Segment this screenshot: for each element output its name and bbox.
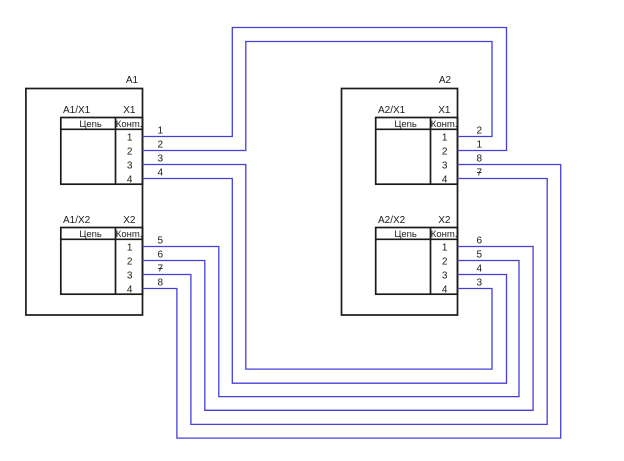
svg-text:5: 5 <box>477 250 483 261</box>
circuit label 3 at A2/X2 pin4 <box>477 278 483 289</box>
pin 4 of A2/X2 <box>442 284 448 295</box>
svg-text:2: 2 <box>127 146 133 157</box>
circuit label 8 at A2/X1 pin3 <box>477 154 483 165</box>
svg-text:6: 6 <box>158 250 164 261</box>
svg-text:3: 3 <box>477 278 483 289</box>
device block A2 <box>342 89 458 316</box>
circuit label 2 at A1/X1 pin2 <box>158 140 164 151</box>
wire circuit 8: A1/X2 pin4 to A2/X1 pin3 <box>143 165 561 439</box>
circuit label 1 at A1/X1 pin1 <box>158 126 164 137</box>
svg-text:2: 2 <box>127 256 133 267</box>
pin 2 of A2/X1 <box>442 146 448 157</box>
svg-text:A1: A1 <box>126 75 139 86</box>
connector table A2/X2 <box>376 228 458 295</box>
label X1 of A2 <box>438 105 451 116</box>
pin 3 of A2/X1 <box>442 160 448 171</box>
pin 2 of A2/X2 <box>442 256 448 267</box>
circuit label 6 at A1/X2 pin2 <box>158 250 164 261</box>
svg-text:A1/X1: A1/X1 <box>63 105 91 116</box>
header Конт. of A2/X1 <box>431 119 458 130</box>
svg-text:2: 2 <box>477 126 483 137</box>
svg-text:A1/X2: A1/X2 <box>63 215 91 226</box>
header Конт. of A1/X1 <box>116 119 143 130</box>
wire circuit 4: A1/X1 pin4 to A2/X2 pin3 <box>143 179 507 384</box>
svg-text:Цenь: Цenь <box>79 119 102 130</box>
pin 3 of A1/X1 <box>127 160 133 171</box>
svg-text:Цenь: Цenь <box>394 119 417 130</box>
svg-text:4: 4 <box>442 174 448 185</box>
circuit label 7 at A1/X2 pin3 <box>158 264 164 275</box>
svg-text:A2/X1: A2/X1 <box>378 105 406 116</box>
header Конт. of A2/X2 <box>431 229 458 240</box>
svg-text:6: 6 <box>477 236 483 247</box>
svg-text:A2: A2 <box>439 75 452 86</box>
svg-text:2: 2 <box>442 256 448 267</box>
label A2/X2 <box>378 215 406 226</box>
svg-text:A2/X2: A2/X2 <box>378 215 406 226</box>
pin 4 of A2/X1 <box>442 174 448 185</box>
svg-text:8: 8 <box>477 154 483 165</box>
circuit label 6 at A2/X2 pin1 <box>477 236 483 247</box>
label X1 of A1 <box>123 105 136 116</box>
svg-text:1: 1 <box>127 242 133 253</box>
svg-text:2: 2 <box>442 146 448 157</box>
header Цепь of A1/X2 <box>79 229 102 240</box>
connector table A1/X2 <box>61 228 143 295</box>
label A2 <box>439 75 452 86</box>
circuit label 8 at A1/X2 pin4 <box>158 278 164 289</box>
label A2/X1 <box>378 105 406 116</box>
svg-text:Цenь: Цenь <box>394 229 417 240</box>
svg-text:8: 8 <box>158 278 164 289</box>
svg-text:4: 4 <box>127 284 133 295</box>
header Конт. of A1/X2 <box>116 229 143 240</box>
svg-text:4: 4 <box>127 174 133 185</box>
pin 1 of A2/X2 <box>442 242 448 253</box>
header Цепь of A2/X1 <box>394 119 417 130</box>
svg-text:5: 5 <box>158 236 164 247</box>
svg-text:1: 1 <box>442 132 448 143</box>
pin 4 of A1/X1 <box>127 174 133 185</box>
svg-text:X2: X2 <box>123 215 136 226</box>
svg-text:1: 1 <box>477 140 483 151</box>
wire circuit 1: A1/X1 pin1 to A2/X1 pin2 <box>143 28 507 151</box>
svg-text:4: 4 <box>158 168 164 179</box>
svg-text:3: 3 <box>158 154 164 165</box>
circuit label 5 at A2/X2 pin2 <box>477 250 483 261</box>
label A1 <box>126 75 139 86</box>
svg-text:X1: X1 <box>438 105 451 116</box>
circuit label 3 at A1/X1 pin3 <box>158 154 164 165</box>
svg-text:3: 3 <box>442 270 448 281</box>
svg-text:1: 1 <box>158 126 164 137</box>
pin 2 of A1/X2 <box>127 256 133 267</box>
label X2 of A2 <box>438 215 451 226</box>
svg-text:3: 3 <box>127 160 133 171</box>
svg-text:1: 1 <box>442 242 448 253</box>
label X2 of A1 <box>123 215 136 226</box>
wire circuit 6: A1/X2 pin2 to A2/X2 pin1 <box>143 247 534 411</box>
svg-text:Конm.: Конm. <box>116 229 143 240</box>
device block A1 <box>26 89 143 316</box>
wire circuit 2: A1/X1 pin2 to A2/X1 pin1 <box>143 42 493 151</box>
circuit label 4 at A2/X2 pin3 <box>477 264 483 275</box>
wire circuit 3: A1/X1 pin3 to A2/X2 pin4 <box>143 165 493 370</box>
pin 3 of A2/X2 <box>442 270 448 281</box>
circuit label 1 at A2/X1 pin2 <box>477 140 483 151</box>
svg-text:7: 7 <box>158 264 164 275</box>
label A1/X2 <box>63 215 91 226</box>
svg-text:Конm.: Конm. <box>116 119 143 130</box>
svg-text:3: 3 <box>442 160 448 171</box>
circuit label 2 at A2/X1 pin1 <box>477 126 483 137</box>
circuit label 5 at A1/X2 pin1 <box>158 236 164 247</box>
svg-text:Цenь: Цenь <box>79 229 102 240</box>
pin 3 of A1/X2 <box>127 270 133 281</box>
connector table A1/X1 <box>61 118 143 185</box>
pin 1 of A1/X2 <box>127 242 133 253</box>
wire circuit 5: A1/X2 pin1 to A2/X2 pin2 <box>143 247 520 397</box>
svg-text:4: 4 <box>477 264 483 275</box>
svg-text:Конm.: Конm. <box>431 229 458 240</box>
header Цепь of A1/X1 <box>79 119 102 130</box>
svg-text:X2: X2 <box>438 215 451 226</box>
pin 1 of A1/X1 <box>127 132 133 143</box>
svg-text:7: 7 <box>477 168 483 179</box>
svg-text:Конm.: Конm. <box>431 119 458 130</box>
header Цепь of A2/X2 <box>394 229 417 240</box>
pin 1 of A2/X1 <box>442 132 448 143</box>
svg-text:3: 3 <box>127 270 133 281</box>
circuit label 7 at A2/X1 pin4 <box>477 168 483 179</box>
pin 2 of A1/X1 <box>127 146 133 157</box>
svg-text:1: 1 <box>127 132 133 143</box>
svg-text:2: 2 <box>158 140 164 151</box>
connector table A2/X1 <box>376 118 458 185</box>
circuit label 4 at A1/X1 pin4 <box>158 168 164 179</box>
pin 4 of A1/X2 <box>127 284 133 295</box>
svg-text:X1: X1 <box>123 105 136 116</box>
wire circuit 7: A1/X2 pin3 to A2/X1 pin4 <box>143 179 548 425</box>
label A1/X1 <box>63 105 91 116</box>
svg-text:4: 4 <box>442 284 448 295</box>
